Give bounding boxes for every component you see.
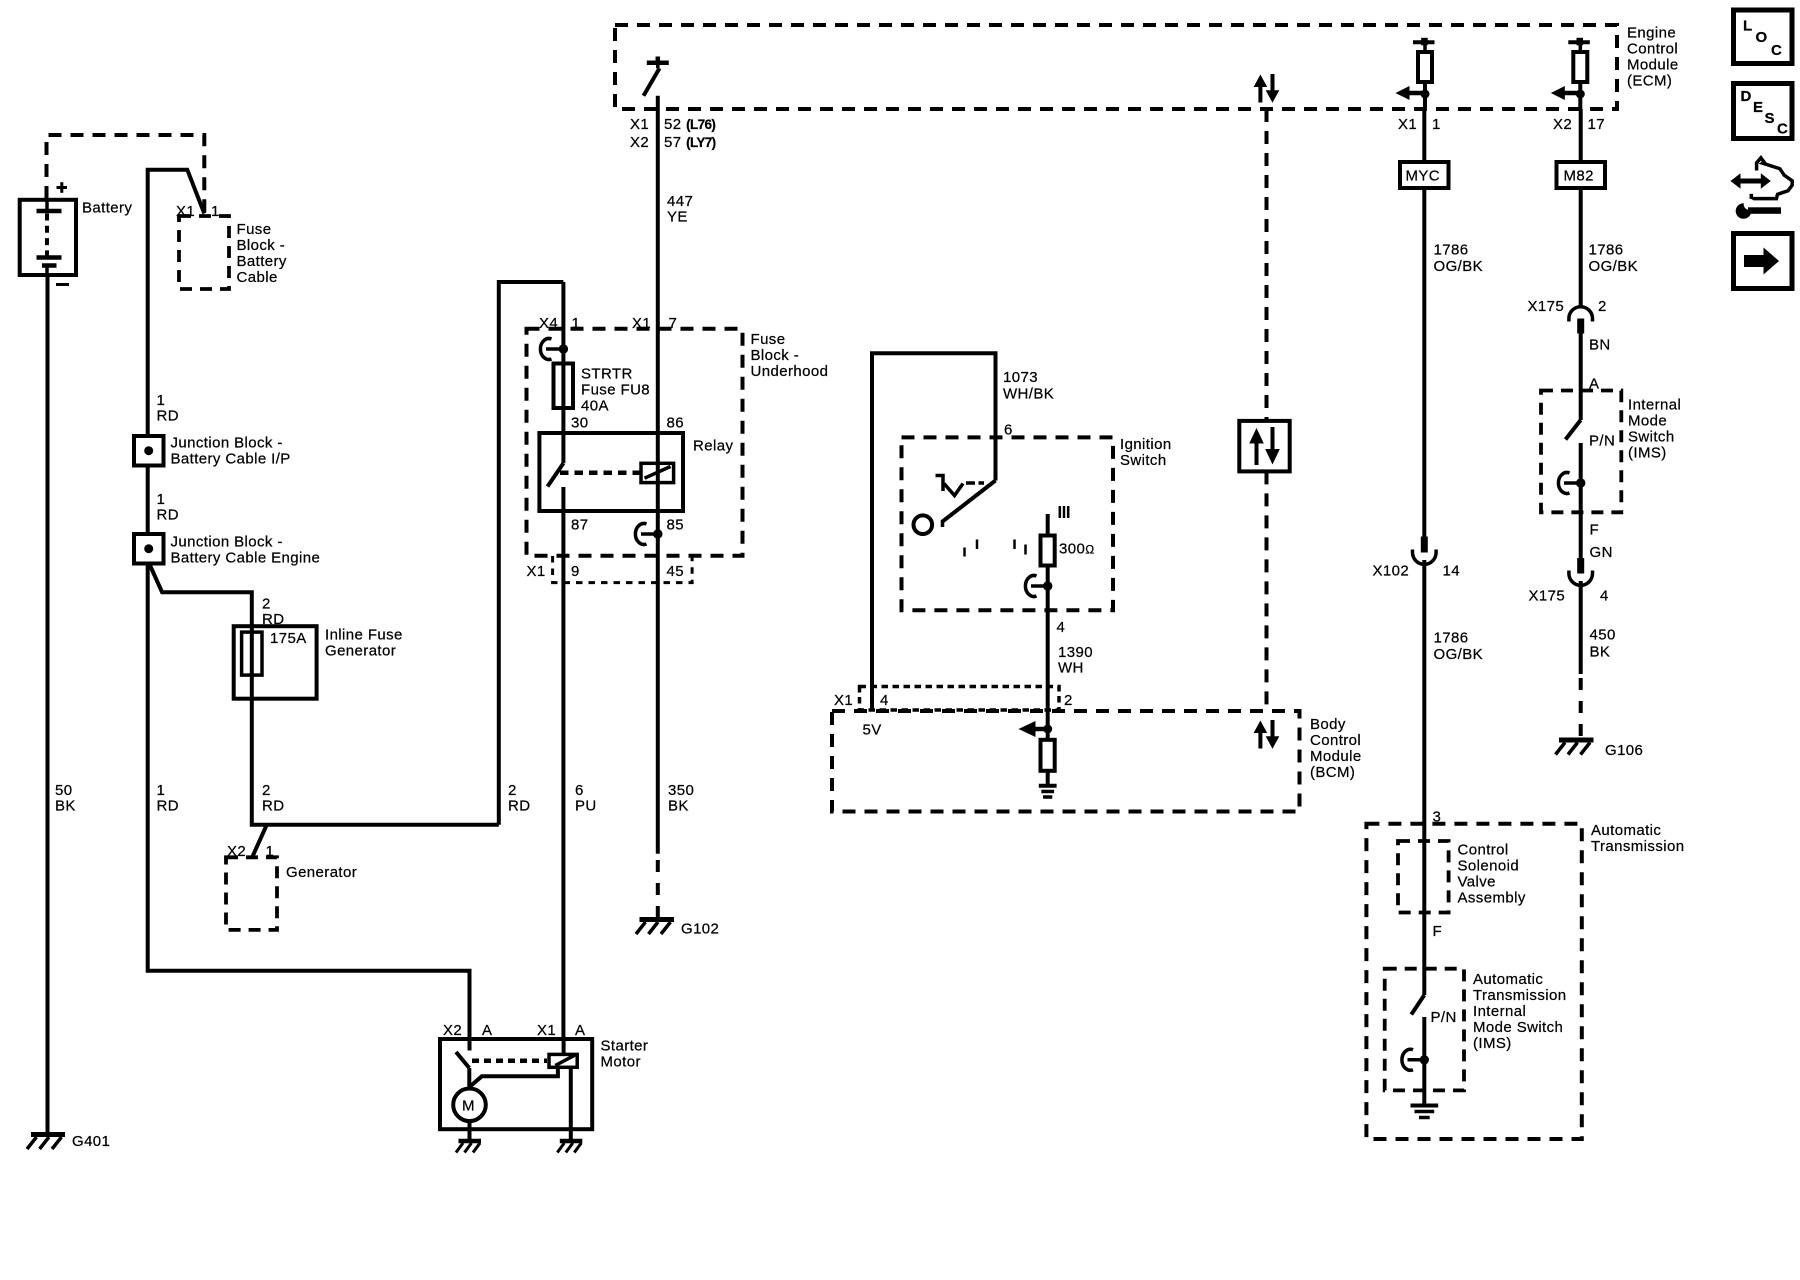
generator (dashed box) <box>226 857 357 930</box>
ignition key symbol <box>936 476 985 496</box>
svg-text:X2: X2 <box>630 134 649 151</box>
double arrow (vehicle data) <box>1731 173 1771 188</box>
svg-text:Control: Control <box>1627 41 1678 58</box>
wire junction block engine to inline fuse and generator 2 RD <box>149 562 499 825</box>
svg-text:6: 6 <box>1004 422 1013 439</box>
svg-text:1: 1 <box>1432 116 1441 133</box>
relay switch blade 30-87 <box>548 463 642 486</box>
inline connector X175 pin 2 <box>1528 298 1607 334</box>
svg-text:C: C <box>1771 42 1782 59</box>
svg-text:A: A <box>575 1022 585 1039</box>
ECM internal fuse to MYC pin X1-1 <box>1396 38 1441 133</box>
svg-text:57 (LY7): 57 (LY7) <box>664 134 716 151</box>
svg-text:L: L <box>1743 18 1753 35</box>
automatic transmission (dashed box) <box>1366 809 1684 1140</box>
svg-text:GN: GN <box>1590 544 1613 561</box>
svg-text:P/N: P/N <box>1431 1009 1457 1026</box>
svg-text:350: 350 <box>668 782 694 799</box>
svg-text:Automatic: Automatic <box>1473 971 1543 988</box>
forward arrow icon box <box>1734 234 1793 289</box>
svg-text:Mode: Mode <box>1628 413 1667 430</box>
svg-text:Control: Control <box>1310 732 1361 749</box>
svg-text:Starter: Starter <box>601 1038 649 1055</box>
svg-text:6: 6 <box>575 782 584 799</box>
off-page connector box with up/down arrows <box>1239 421 1289 472</box>
starter motor (solid box) <box>440 1022 648 1129</box>
connector pin 85 (arc bar dot) <box>635 524 662 545</box>
svg-text:Transmission: Transmission <box>1473 987 1566 1004</box>
ground G106 <box>1556 740 1644 759</box>
transmission IMS ground <box>1411 1106 1439 1118</box>
svg-text:X175: X175 <box>1529 588 1566 605</box>
wire battery positive to junction blocks <box>148 170 470 1039</box>
wire CSVA pin F to transmission IMS <box>1424 841 1442 995</box>
inline connector X102 pin 14 <box>1373 537 1461 842</box>
svg-text:Engine: Engine <box>1627 25 1676 42</box>
IMS lower contact wire <box>1581 443 1613 561</box>
svg-text:X2: X2 <box>1553 116 1572 133</box>
BCM off-page arrows (up/down) <box>1254 720 1280 749</box>
svg-text:85: 85 <box>667 517 685 534</box>
svg-text:1: 1 <box>157 491 166 508</box>
starter motor ground <box>456 1121 481 1152</box>
svg-text:45: 45 <box>667 563 685 580</box>
wire ECM X2-17 M82 1786 OG/BK <box>1581 109 1638 308</box>
svg-text:Mode Switch: Mode Switch <box>1473 1019 1563 1036</box>
svg-text:52 (L76): 52 (L76) <box>664 116 715 133</box>
svg-text:BK: BK <box>668 798 689 815</box>
svg-text:175A: 175A <box>270 630 307 647</box>
svg-text:4: 4 <box>880 692 889 709</box>
wire ignition sw pin 4 to BCM pin 2, 1390 WH <box>1048 566 1093 740</box>
svg-text:300Ω: 300Ω <box>1059 541 1095 558</box>
svg-text:X102: X102 <box>1373 563 1410 580</box>
svg-text:X1: X1 <box>1398 116 1417 133</box>
dashed class-2 serial data wire ECM to BCM <box>1265 109 1269 711</box>
transmission IMS lower contact wire <box>1422 1017 1426 1104</box>
svg-text:86: 86 <box>667 415 685 432</box>
svg-text:1: 1 <box>157 782 166 799</box>
svg-text:X1: X1 <box>834 692 853 709</box>
svg-text:2: 2 <box>262 782 271 799</box>
svg-text:450: 450 <box>1590 627 1616 644</box>
svg-text:STRTR: STRTR <box>581 366 633 383</box>
wire label 6 PU <box>575 782 597 815</box>
ignition key position marks I II III <box>965 506 1069 557</box>
svg-text:G106: G106 <box>1605 742 1643 759</box>
connector pin transmission IMS (arc bar dot) <box>1402 1049 1429 1070</box>
svg-text:X1: X1 <box>537 1022 556 1039</box>
svg-text:RD: RD <box>508 798 530 815</box>
svg-text:Underhood: Underhood <box>751 363 829 380</box>
svg-text:14: 14 <box>1443 563 1461 580</box>
svg-text:RD: RD <box>157 408 179 425</box>
svg-text:M: M <box>462 1098 475 1115</box>
svg-text:Fuse: Fuse <box>751 331 786 348</box>
svg-text:OG/BK: OG/BK <box>1434 646 1484 663</box>
svg-text:OG/BK: OG/BK <box>1434 258 1484 275</box>
svg-text:S: S <box>1765 110 1775 127</box>
connector pin IMS F (arc bar dot) <box>1558 472 1585 493</box>
inline fuse generator 175A <box>234 626 403 699</box>
ignition switch (dashed box) <box>902 436 1172 610</box>
BCM internal ground <box>1039 771 1057 797</box>
wire label 2 RD (lower) <box>262 782 284 815</box>
svg-text:OG/BK: OG/BK <box>1589 258 1639 275</box>
svg-text:WH: WH <box>1058 660 1084 677</box>
svg-text:30: 30 <box>571 415 589 432</box>
ignition switch feed wire 1073 WH/BK <box>872 353 1054 711</box>
starter motor M <box>453 1089 486 1122</box>
battery positive cable dashed enclosure <box>47 135 205 213</box>
svg-text:1073: 1073 <box>1003 369 1038 386</box>
svg-text:2: 2 <box>262 596 271 613</box>
svg-text:X2: X2 <box>443 1022 462 1039</box>
svg-text:A: A <box>482 1022 492 1039</box>
svg-text:YE: YE <box>667 209 688 226</box>
svg-text:WH/BK: WH/BK <box>1003 386 1054 403</box>
svg-text:3: 3 <box>1433 809 1442 826</box>
svg-text:RD: RD <box>157 798 179 815</box>
svg-text:1786: 1786 <box>1589 242 1624 259</box>
starter solenoid switch blade <box>456 1039 547 1089</box>
wire feed to fuse block X4-1, 2 RD <box>499 282 564 825</box>
svg-text:2: 2 <box>1064 692 1073 709</box>
ground G401 <box>27 1133 110 1150</box>
M82 label box <box>1557 162 1606 188</box>
svg-text:Battery: Battery <box>237 253 287 270</box>
ECM off-page arrows (up/down) <box>1254 74 1280 103</box>
svg-text:Internal: Internal <box>1628 397 1681 414</box>
starter solenoid coil <box>549 1039 577 1067</box>
battery B1 <box>20 182 133 284</box>
svg-text:RD: RD <box>262 798 284 815</box>
svg-text:C: C <box>1777 121 1788 138</box>
svg-text:X1: X1 <box>630 116 649 133</box>
fuse block X1 connector strip (pins 9 and 45) <box>527 556 693 583</box>
svg-text:M82: M82 <box>1564 168 1594 185</box>
fuse block - battery cable (dashed box) <box>179 216 287 289</box>
svg-text:447: 447 <box>667 193 693 210</box>
wire label 1 RD (mid) <box>157 491 179 524</box>
svg-text:Ignition: Ignition <box>1120 436 1172 453</box>
svg-text:Motor: Motor <box>601 1054 641 1071</box>
svg-text:5V: 5V <box>863 722 882 739</box>
transmission IMS switch blade P/N <box>1411 995 1456 1026</box>
svg-text:1786: 1786 <box>1434 630 1469 647</box>
internal mode switch IMS (dashed box) <box>1541 391 1681 513</box>
ECM internal fuse to M82 pin X2-17 <box>1551 38 1605 133</box>
svg-text:Switch: Switch <box>1628 429 1675 446</box>
svg-text:BK: BK <box>55 798 76 815</box>
svg-text:X175: X175 <box>1528 298 1565 315</box>
svg-text:Battery Cable Engine: Battery Cable Engine <box>171 550 321 567</box>
svg-text:50: 50 <box>55 782 73 799</box>
DESC icon box <box>1734 84 1793 139</box>
wire X4-1 relay 30-87 feed to starter X1-A <box>539 282 580 1039</box>
svg-text:87: 87 <box>571 517 589 534</box>
wire to generator X2-1 <box>227 825 274 860</box>
svg-text:Block -: Block - <box>751 347 800 364</box>
svg-text:1390: 1390 <box>1058 644 1093 661</box>
LOC icon box <box>1734 10 1793 64</box>
svg-text:9: 9 <box>571 563 580 580</box>
STRTR fuse FU8 40A <box>554 364 651 415</box>
svg-text:BN: BN <box>1589 337 1611 354</box>
svg-text:2: 2 <box>508 782 517 799</box>
svg-text:Generator: Generator <box>325 643 396 660</box>
wire label 1 RD (upper) <box>157 392 179 425</box>
svg-text:Assembly: Assembly <box>1458 890 1526 907</box>
svg-text:D: D <box>1741 88 1752 105</box>
svg-text:O: O <box>1756 29 1768 46</box>
svg-text:F: F <box>1590 522 1600 539</box>
resistor 300 ohm <box>1041 514 1095 566</box>
svg-text:X1: X1 <box>527 563 546 580</box>
svg-text:MYC: MYC <box>1406 168 1441 185</box>
BCM X1 connector strip (pins 4 and 2) <box>834 687 1073 711</box>
svg-text:E: E <box>1753 99 1763 116</box>
svg-text:Generator: Generator <box>286 864 357 881</box>
svg-text:Fuse: Fuse <box>237 221 272 238</box>
svg-text:40A: 40A <box>581 398 609 415</box>
svg-text:Switch: Switch <box>1120 452 1167 469</box>
relay coil 86-85 <box>641 463 674 482</box>
svg-text:Relay: Relay <box>693 438 733 455</box>
automatic transmission internal mode switch (dashed box) <box>1385 969 1567 1091</box>
junction block - battery cable I/P <box>134 435 291 468</box>
wrench icon <box>1736 199 1781 219</box>
svg-text:(BCM): (BCM) <box>1310 764 1355 781</box>
car silhouette icon <box>1751 158 1792 199</box>
connector pin ignition sw 4 (arc bar dot) <box>1025 576 1052 597</box>
ECM internal switch contact <box>644 57 669 96</box>
svg-text:Internal: Internal <box>1473 1003 1526 1020</box>
svg-text:Inline Fuse: Inline Fuse <box>325 627 403 644</box>
svg-text:Module: Module <box>1310 748 1362 765</box>
svg-text:Body: Body <box>1310 716 1346 733</box>
IMS switch blade P/N <box>1566 420 1616 450</box>
wire battery negative 50 BK <box>48 275 76 1133</box>
control solenoid valve assembly (dashed box) <box>1398 841 1526 913</box>
BCM internal pull-up resistor <box>1041 740 1055 771</box>
svg-text:Junction Block -: Junction Block - <box>171 435 283 452</box>
wire BN to IMS pin A <box>1581 334 1611 421</box>
relay (solid box) <box>539 415 733 534</box>
svg-text:(IMS): (IMS) <box>1473 1035 1512 1052</box>
svg-text:Block -: Block - <box>237 237 286 254</box>
svg-text:Battery Cable I/P: Battery Cable I/P <box>171 451 291 468</box>
svg-text:G401: G401 <box>72 1133 110 1150</box>
svg-text:Junction Block -: Junction Block - <box>171 534 283 551</box>
svg-text:1: 1 <box>211 203 220 220</box>
svg-text:Cable: Cable <box>237 269 278 286</box>
inline connector X175 pin 4 <box>1529 558 1609 605</box>
svg-text:P/N: P/N <box>1589 433 1615 450</box>
svg-text:Automatic: Automatic <box>1591 822 1661 839</box>
svg-text:BK: BK <box>1590 644 1611 661</box>
ground G102 <box>636 920 719 938</box>
svg-text:F: F <box>1433 923 1443 940</box>
svg-text:Transmission: Transmission <box>1591 838 1684 855</box>
svg-text:1786: 1786 <box>1434 242 1469 259</box>
svg-text:4: 4 <box>1057 619 1066 636</box>
svg-text:(IMS): (IMS) <box>1628 445 1667 462</box>
connector pin X4-1 (arc bar dot) <box>540 339 568 360</box>
svg-text:G102: G102 <box>681 921 719 938</box>
svg-text:Module: Module <box>1627 57 1679 74</box>
svg-text:17: 17 <box>1588 116 1606 133</box>
fuse block - underhood (dashed box) <box>527 329 829 556</box>
body control module BCM (dashed box) <box>832 711 1362 812</box>
svg-text:1: 1 <box>157 392 166 409</box>
junction block - battery cable engine <box>134 534 320 567</box>
BCM internal signal arrow <box>1019 721 1053 737</box>
wire label 1 RD (lower left) <box>157 782 179 815</box>
starter coil to motor wire <box>469 1067 558 1087</box>
svg-text:4: 4 <box>1600 588 1609 605</box>
svg-text:Control: Control <box>1458 842 1509 859</box>
wire ECM X1-1 MYC 1786 OG/BK to transmission <box>1424 109 1483 663</box>
svg-text:(ECM): (ECM) <box>1627 73 1672 90</box>
ignition switch rotary contact <box>914 481 996 535</box>
svg-text:PU: PU <box>575 798 597 815</box>
svg-text:Valve: Valve <box>1458 874 1496 891</box>
svg-text:Fuse FU8: Fuse FU8 <box>581 382 650 399</box>
svg-text:Battery: Battery <box>82 200 132 217</box>
wire 450 BK to G106 <box>1581 581 1616 737</box>
engine control module ECM (dashed box) <box>615 25 1679 110</box>
starter solenoid ground <box>557 1067 582 1152</box>
svg-text:2: 2 <box>1598 298 1607 315</box>
svg-text:Solenoid: Solenoid <box>1458 858 1520 875</box>
svg-text:RD: RD <box>157 507 179 524</box>
ECM switch output wire 447 YE / 350 BK to G102 <box>630 96 716 917</box>
MYC label box <box>1400 162 1449 188</box>
